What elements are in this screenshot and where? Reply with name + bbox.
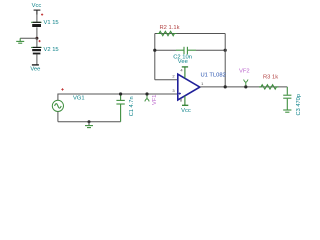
op-amp U1 triangle	[178, 74, 200, 100]
voltage generator VG1	[52, 100, 63, 111]
svg-text:3: 3	[172, 88, 175, 93]
junction dot battery midpoint	[35, 37, 38, 40]
power terminal Vcc (jumper T-bar)	[34, 10, 41, 14]
ground (output RC)	[283, 110, 291, 112]
svg-text:Vcc: Vcc	[181, 108, 191, 114]
voltage pin VF1 probe	[145, 96, 149, 102]
junction dot VF2	[244, 85, 247, 88]
wire VG1 top lead	[57, 94, 59, 100]
V1 polarity plus mark	[41, 14, 43, 16]
wire input rail (VG1 to op-amp non-inverting input)	[58, 93, 178, 95]
wire V1 bottom to junction	[36, 27, 38, 38]
svg-text:1: 1	[201, 81, 204, 86]
wire feedback left vertical	[154, 34, 156, 80]
V2 polarity plus mark	[39, 40, 41, 42]
wire VG1 bottom lead	[57, 112, 59, 122]
svg-text:C1 4.7n: C1 4.7n	[129, 96, 135, 116]
wire junction to ground	[20, 37, 37, 39]
svg-text:VG1: VG1	[73, 96, 85, 102]
VG1 polarity plus mark	[61, 88, 63, 90]
wire op-amp inverting input	[155, 79, 178, 81]
junction dot VF1	[145, 92, 148, 95]
junction dot feedback right	[224, 49, 227, 52]
battery V2	[31, 47, 42, 54]
wire bottom rail	[58, 121, 121, 123]
svg-text:VF1: VF1	[152, 95, 158, 105]
svg-text:8: 8	[180, 98, 183, 103]
battery V1	[31, 22, 42, 27]
wire feedback mid branch left	[155, 49, 176, 51]
svg-text:Vcc: Vcc	[32, 3, 42, 9]
svg-text:Vee: Vee	[178, 59, 188, 65]
svg-text:VF2: VF2	[239, 69, 250, 75]
resistor R2	[157, 31, 176, 35]
wire feedback mid branch right	[196, 49, 225, 51]
wire V2 bottom to Vee bar	[36, 55, 38, 65]
svg-text:R2 1.1k: R2 1.1k	[160, 25, 180, 31]
svg-text:Vee: Vee	[30, 66, 40, 72]
op-amp plus sign (non-inverting)	[179, 92, 181, 94]
svg-text:V1 15: V1 15	[44, 20, 59, 26]
capacitor C1	[116, 96, 124, 122]
voltage pin VF2 probe	[244, 80, 248, 86]
wire feedback top branch	[155, 33, 225, 35]
resistor R3	[259, 85, 278, 89]
junction dot feedback to output	[224, 85, 227, 88]
svg-text:U1 TL082: U1 TL082	[201, 72, 226, 78]
svg-text:C3 470p: C3 470p	[296, 94, 302, 116]
power terminal Vee (jumper T-bar)	[32, 64, 39, 66]
wire junction to V2 top	[36, 38, 38, 47]
svg-text:V2 15: V2 15	[44, 47, 59, 53]
capacitor C3	[283, 87, 291, 110]
ground (signal)	[85, 122, 93, 128]
junction dot C1 top	[119, 92, 122, 95]
svg-text:4: 4	[180, 68, 183, 73]
ground (supply midpoint)	[16, 38, 24, 43]
junction dot ground tap	[88, 120, 91, 123]
power stub Vee (op-amp top supply)	[182, 67, 188, 79]
wire op-amp output	[200, 86, 287, 88]
capacitor C2	[176, 47, 196, 54]
junction dot feedback left	[153, 49, 156, 52]
wire feedback right vertical	[224, 34, 226, 87]
svg-text:2: 2	[172, 74, 175, 79]
svg-text:R3 1k: R3 1k	[263, 75, 278, 81]
wire Vcc bar to V1 top	[36, 15, 38, 23]
power stub Vcc (op-amp bottom supply)	[182, 96, 188, 106]
